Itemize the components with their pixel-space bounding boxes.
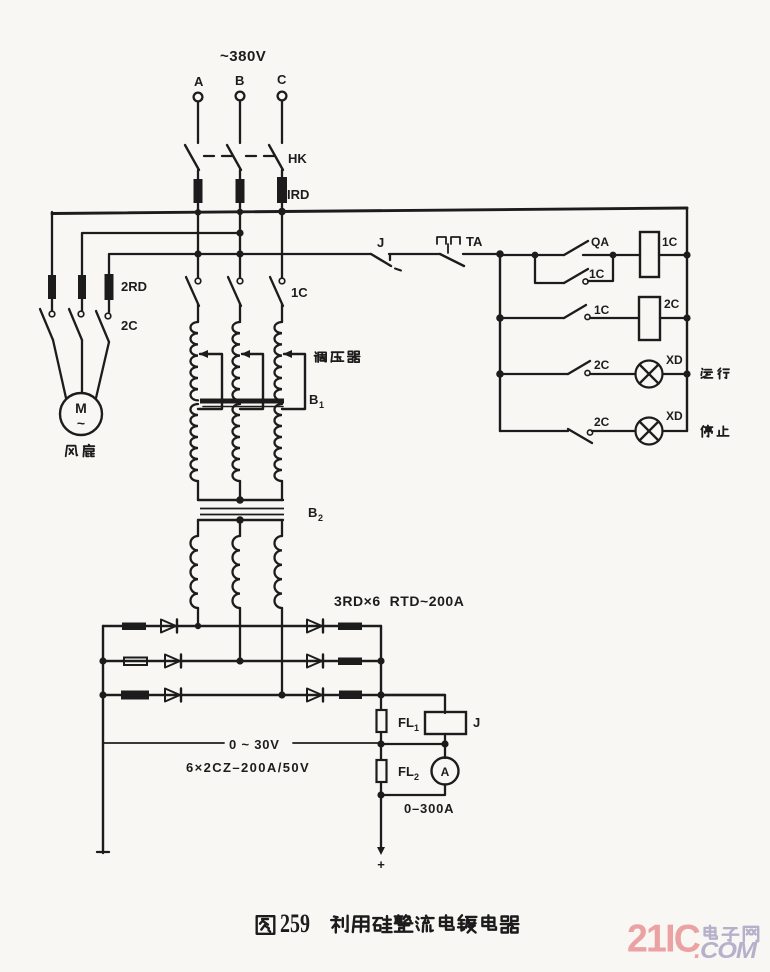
contact 2C-3 blade (96, 311, 109, 342)
svg-text:2C: 2C (594, 415, 610, 429)
svg-text:1C: 1C (594, 303, 610, 317)
svg-text:XD: XD (666, 409, 683, 423)
node row2 right rail (683, 314, 690, 321)
diode D5 (307, 655, 322, 668)
node output junction (377, 791, 384, 798)
wire A to fuse (197, 170, 199, 180)
wire sec B to rail2 (239, 608, 241, 661)
wire B2 sec B stub (239, 520, 241, 536)
contact 1C hold blade (564, 269, 588, 283)
contact 2C row4 blade (568, 429, 592, 443)
fuse row1 right (338, 623, 362, 631)
svg-text:3RD×6 RTD~200A: 3RD×6 RTD~200A (334, 593, 464, 609)
wire B1 A tail (197, 481, 199, 500)
wire B1 B tail (239, 481, 241, 500)
contact 1C-B blade (228, 277, 241, 306)
fuse FL2 (377, 760, 387, 782)
wire B1 bottom connector (198, 499, 283, 501)
contact 1C-A terminal (195, 278, 201, 284)
svg-text:XD: XD (666, 353, 683, 367)
wire phase B drop (239, 101, 241, 143)
wire J-TA (389, 253, 440, 255)
node B2 top mid (236, 516, 244, 524)
motor M fan (60, 393, 102, 435)
contact 1C-B terminal (237, 278, 243, 284)
fuse row1 left (122, 623, 146, 631)
wire row3 right (663, 373, 688, 375)
svg-text:1: 1 (319, 400, 324, 410)
wire row1 right (659, 254, 687, 256)
svg-text:B: B (308, 505, 317, 520)
terminal A (194, 93, 203, 102)
wiper bus underline (203, 406, 283, 408)
wire left DC rail (102, 626, 104, 853)
svg-text:2C: 2C (594, 358, 610, 372)
svg-text:TA: TA (466, 234, 483, 249)
fuse row2 left (124, 658, 147, 666)
wire row4 (500, 430, 568, 432)
contact 1C-C terminal (279, 278, 285, 284)
coil B2 secondary B (233, 536, 241, 608)
fuse row2 right (338, 658, 362, 666)
svg-text:1C: 1C (589, 267, 605, 281)
node bus-B (237, 209, 243, 215)
node row2 left rail (496, 314, 504, 322)
relay coil J (425, 712, 466, 734)
wire row4 right (663, 430, 688, 432)
thermal TA symbol (437, 237, 446, 244)
wire row2 mid (590, 317, 639, 319)
node rail2-secB (236, 657, 243, 664)
node bus-C (278, 208, 286, 216)
node row3 left rail (496, 370, 504, 378)
node feeder3-A (194, 250, 201, 257)
svg-text:2: 2 (318, 513, 323, 523)
switch HK linkage dashes (204, 155, 214, 157)
wire control left rail (499, 254, 501, 431)
switch HK blade C (269, 145, 283, 170)
terminal negative tick (97, 851, 109, 853)
svg-text:~380V: ~380V (220, 48, 266, 65)
contact 2C-1 terminal (49, 311, 55, 317)
contact 1C hold terminal (583, 279, 588, 284)
wire rectifier rail 2 (103, 660, 381, 662)
wire B contact-coil (239, 304, 241, 322)
relay coil 2C (639, 297, 660, 340)
contact 2C-1 blade (40, 309, 53, 340)
svg-text:HK: HK (288, 151, 307, 166)
svg-text:C: C (277, 72, 287, 87)
node bus-A (195, 209, 201, 215)
terminal positive arrowhead (377, 847, 385, 855)
svg-text:J: J (377, 235, 384, 250)
svg-text:A: A (194, 74, 204, 89)
node J branch bottom (441, 740, 448, 747)
contact 2C-2 terminal (78, 311, 84, 317)
svg-text:B: B (235, 73, 244, 88)
wire sec C to rail3 (281, 608, 283, 695)
contact 2C-2 blade (69, 309, 82, 340)
wire 2RD-1 stub (51, 299, 53, 311)
svg-text:0–300A: 0–300A (404, 801, 454, 816)
fuse 2RD-3 (105, 274, 114, 300)
svg-text:1: 1 (414, 723, 419, 733)
wire motor lead left (53, 340, 66, 398)
wire row4 mid (592, 430, 636, 432)
wire B2 top connector (198, 519, 283, 521)
lamp XD stop (636, 418, 663, 445)
wire C bus-contact (281, 213, 283, 278)
tap bracket A (198, 354, 222, 409)
svg-text:6×2CZ–200A/50V: 6×2CZ–200A/50V (186, 760, 310, 775)
wire rectifier rail 3 (103, 694, 445, 696)
wire main bus (52, 208, 687, 214)
caption figure 259 (257, 916, 275, 934)
lamp XD run (636, 361, 663, 388)
wire phase A drop (197, 102, 199, 143)
wire A contact-coil (197, 304, 199, 322)
contact 1C row2 blade (564, 305, 586, 318)
wire fuse C to bus (281, 203, 283, 213)
svg-text:QA: QA (591, 235, 609, 249)
svg-text:+: + (377, 857, 385, 872)
wire rectifier rail 1 (103, 625, 381, 627)
svg-text:~: ~ (77, 415, 85, 431)
tap arrow C (283, 350, 292, 358)
wire feeder 1 drop (51, 212, 53, 276)
node right rail row3 (377, 691, 384, 698)
wire motor lead mid (81, 340, 83, 393)
wire 2RD-3 stub (108, 300, 110, 312)
svg-text:COM: COM (700, 937, 758, 963)
tap bracket C (282, 354, 305, 409)
contact J blade (371, 254, 391, 266)
terminal C (278, 92, 287, 101)
wire positive lead (380, 795, 382, 849)
contact J aux dash (395, 269, 401, 271)
tap bracket B (240, 354, 263, 409)
node rail1-secA (195, 623, 201, 629)
node row1 right rail (683, 251, 690, 258)
svg-text:2: 2 (414, 772, 419, 782)
svg-text:IRD: IRD (287, 187, 309, 202)
coil B1 phase C upper (275, 322, 283, 400)
wire right rail FL1 segment (380, 695, 382, 744)
node control rail top (496, 250, 504, 258)
contact 2C row3 blade (568, 361, 590, 374)
wire B bus-contact (239, 213, 241, 278)
diode D3 (165, 689, 180, 702)
wire C to fuse (281, 170, 283, 180)
node left rail row2 (99, 657, 106, 664)
wire B2 sec C stub (281, 520, 283, 536)
node FL1 bottom (377, 740, 384, 747)
label regulator (315, 352, 327, 362)
diode D6 (307, 689, 322, 702)
tap arrow B (241, 350, 250, 358)
coil B1 phase A lower (191, 404, 198, 481)
contact 2C-3 terminal (105, 313, 111, 319)
wire rail3 extension corner (381, 695, 445, 713)
relay coil 1C (640, 232, 659, 277)
coil B2 secondary C (274, 536, 282, 608)
svg-text:1C: 1C (662, 235, 678, 249)
wire A bus-contact (197, 213, 199, 278)
switch HK blade A (185, 145, 199, 170)
fuse 2RD-2 (78, 275, 86, 299)
wire B2 sec A stub (197, 520, 199, 536)
wire FL2 segment (380, 744, 382, 795)
wire 2RD-2 stub (81, 299, 83, 311)
svg-text:259: 259 (280, 909, 310, 938)
svg-text:2RD: 2RD (121, 279, 147, 294)
svg-text:FL: FL (398, 715, 414, 730)
wire C contact-coil (281, 304, 283, 322)
wire feeder 2 (82, 233, 240, 276)
coil B2 secondary A (191, 536, 199, 608)
logo dianziwang (705, 926, 717, 939)
node right rail row2 (377, 657, 384, 664)
label stop (701, 426, 712, 438)
node row1 hold tap (532, 252, 539, 259)
wire row3 mid (590, 373, 636, 375)
dimension line 0-30V left (103, 742, 224, 744)
contact 2C row3 terminal (585, 370, 590, 375)
coil B1 phase C lower (275, 404, 282, 481)
tap arrow A (199, 350, 208, 358)
wire hold branch right (588, 257, 613, 281)
svg-text:A: A (441, 765, 450, 779)
wire row2 (500, 317, 564, 319)
dimension line 0-30V right (293, 742, 378, 744)
coil B1 phase B lower (233, 404, 241, 481)
wire row3 (500, 373, 568, 375)
fuse row3 left (121, 691, 149, 700)
fuse 1RD phase A (194, 179, 203, 203)
node row3 right rail (683, 370, 690, 377)
svg-text:2C: 2C (664, 297, 680, 311)
coil B1 phase A upper (190, 322, 198, 400)
contact 1C row2 terminal (585, 314, 590, 319)
node rail3-secC (278, 691, 285, 698)
wire row1 mid (583, 254, 640, 256)
fuse FL1 (377, 710, 387, 732)
svg-text:0 ~ 30V: 0 ~ 30V (229, 737, 280, 752)
wire row2 right (660, 317, 687, 319)
contact 1C-A blade (186, 277, 199, 306)
contact J tick (389, 255, 391, 260)
contact 1C-C blade (270, 277, 283, 306)
wire B to fuse (239, 170, 241, 180)
svg-text:1C: 1C (291, 285, 308, 300)
wire junction link (381, 743, 445, 745)
svg-text:2C: 2C (121, 318, 138, 333)
node feeder3-B (236, 250, 243, 257)
node feeder2-B (236, 229, 243, 236)
contact TA blade (440, 254, 464, 266)
wire sec A to rail1 (197, 608, 199, 626)
fuse row3 right (339, 691, 362, 700)
terminal B (236, 92, 245, 101)
contact 2C row4 terminal (587, 430, 592, 435)
node B1 bottom mid (236, 496, 244, 504)
ammeter A (432, 758, 459, 785)
wire feeder 3 (109, 254, 371, 276)
wire ammeter bottom link (381, 785, 445, 796)
node left rail row3 (99, 691, 106, 698)
switch HK blade B (227, 145, 241, 170)
diode D4 (307, 620, 322, 633)
fuse 1RD phase B (236, 179, 245, 203)
wire phase C drop (281, 101, 283, 143)
wire fuse B to bus (239, 203, 241, 213)
svg-text:B: B (309, 392, 318, 407)
core line lower (200, 514, 284, 516)
core line upper (200, 508, 284, 510)
coil B1 phase B upper (233, 322, 241, 400)
svg-text:21IC: 21IC (627, 916, 701, 960)
node row1 coil tap (610, 252, 617, 259)
label fan (66, 446, 78, 457)
wire J coil tail (444, 734, 446, 744)
wire control right rail (686, 208, 688, 431)
wire row1 (500, 254, 564, 256)
wire hold branch (535, 255, 564, 283)
contact QA blade (564, 241, 588, 255)
fuse 2RD-1 (48, 275, 56, 299)
wire motor lead right (96, 342, 109, 398)
wire fuse A to bus (197, 203, 199, 213)
diode D1 (161, 620, 176, 633)
wire TA-rail (463, 253, 500, 255)
svg-text:M: M (75, 400, 87, 416)
diode D2 (165, 655, 180, 668)
svg-text:J: J (473, 715, 480, 730)
wire right DC rail upper (380, 626, 382, 695)
wire ammeter branch top (444, 744, 446, 758)
label run (701, 369, 712, 378)
wiper bus bar (200, 399, 284, 404)
wire B1 C tail (281, 481, 283, 500)
svg-text:FL: FL (398, 764, 414, 779)
fuse 1RD phase C (277, 177, 287, 203)
